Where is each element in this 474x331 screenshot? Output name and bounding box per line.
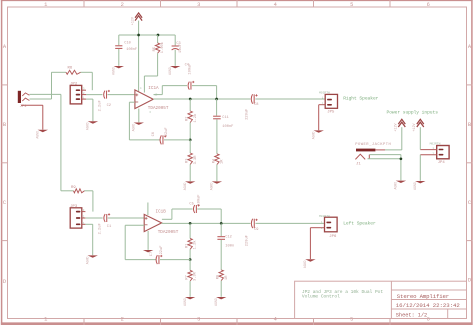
svg-text:R1: R1	[186, 243, 190, 248]
svg-text:22uF: 22uF	[165, 127, 169, 136]
audio jack JP1	[18, 91, 30, 109]
wire IC1B inverting input to C7	[125, 225, 156, 259]
ground AGND (JP4)	[413, 181, 425, 190]
capacitor C3 10uF	[172, 35, 183, 66]
svg-text:AGND: AGND	[413, 182, 417, 190]
svg-text:10uF: 10uF	[179, 44, 183, 53]
svg-text:Sheet: 1/2: Sheet: 1/2	[396, 313, 427, 319]
svg-text:1R: 1R	[225, 275, 229, 280]
svg-text:1.2k: 1.2k	[193, 240, 198, 250]
junction node output A / C11	[215, 98, 218, 101]
svg-text:1: 1	[44, 2, 47, 8]
svg-text:AGND: AGND	[214, 298, 218, 306]
svg-text:IC1B: IC1B	[156, 209, 167, 214]
svg-text:3.3R: 3.3R	[194, 271, 198, 281]
wire jack ring up to R6	[30, 72, 52, 99]
junction node feedback B	[189, 258, 192, 261]
resistor R1 1.2k (feedback B)	[186, 223, 198, 259]
ground AGND (C10)	[112, 66, 124, 75]
svg-text:JP4: JP4	[438, 161, 446, 165]
svg-text:100nF: 100nF	[126, 48, 137, 52]
capacitor C8 220uF (output A)	[245, 94, 325, 120]
svg-text:AGND: AGND	[183, 183, 187, 191]
ground AGND (JP2)	[86, 121, 98, 130]
svg-text:C: C	[3, 200, 6, 206]
label Right Speaker	[343, 96, 378, 102]
wire IC1A inverting input to C6	[129, 102, 160, 140]
svg-text:C6: C6	[152, 132, 156, 136]
svg-text:M02PTH: M02PTH	[319, 215, 330, 218]
wire JP4 pin1 to +12V	[419, 127, 421, 149]
wire JP3 pin2 to C1	[85, 217, 102, 219]
wire JP4 pin2 to ground	[419, 155, 421, 181]
frame column labels top	[44, 2, 430, 8]
svg-text:Power supply inputs: Power supply inputs	[387, 110, 439, 116]
ground AGND (JP6)	[303, 259, 315, 268]
junction node J1 ground	[400, 157, 403, 160]
svg-text:4: 4	[274, 316, 277, 322]
capacitor C7 22uF (feedback B)	[150, 246, 190, 265]
wire IC1A ground pin	[138, 109, 140, 123]
power symbol +12V (jack)	[395, 119, 406, 131]
capacitor C10 100nF	[115, 35, 137, 66]
wire IC1A bootstrap to C4	[154, 86, 188, 95]
svg-text:POWER_JACKPTH: POWER_JACKPTH	[355, 143, 391, 147]
svg-text:5: 5	[350, 2, 353, 8]
wire IC1B ground pin	[147, 231, 149, 250]
svg-text:2.2uF: 2.2uF	[99, 100, 103, 111]
frame column labels bottom	[44, 316, 430, 322]
svg-text:3: 3	[197, 2, 200, 8]
svg-text:4: 4	[274, 2, 277, 8]
wire J1 switch contact to ground	[369, 155, 401, 181]
resistor R6	[52, 66, 93, 90]
svg-text:6: 6	[427, 2, 430, 8]
svg-text:C10: C10	[124, 42, 130, 46]
svg-text:C8: C8	[254, 103, 258, 107]
capacitor C9 220uF (output B)	[246, 219, 325, 247]
frame row labels right	[468, 44, 472, 284]
svg-text:R5: R5	[153, 47, 157, 51]
resistor R5 1.00k	[144, 35, 165, 93]
svg-text:AGND: AGND	[210, 183, 214, 191]
wire jack sleeve to ground	[21, 105, 43, 129]
svg-text:C9: C9	[254, 228, 258, 232]
wire JP5 pin2 to ground	[318, 105, 320, 131]
ground AGND (R8)	[214, 297, 226, 306]
svg-text:2.2uF: 2.2uF	[99, 223, 103, 234]
svg-text:AGND: AGND	[86, 122, 90, 130]
op-amp IC1A TDA2005T (channel A)	[135, 86, 169, 114]
resistor R2 1.2k (feedback A)	[186, 99, 198, 140]
resistor R7 3.3R (feedback B lower)	[186, 260, 198, 297]
wire JP2 pin2 to C2	[86, 94, 102, 96]
svg-text:C: C	[468, 200, 471, 206]
svg-text:JP6: JP6	[329, 235, 337, 239]
svg-text:C7: C7	[150, 252, 154, 256]
resistor R8 1R (zobel B)	[217, 270, 229, 297]
svg-text:JP2: JP2	[70, 83, 78, 87]
svg-text:AGND: AGND	[168, 67, 172, 75]
svg-text:IC1A: IC1A	[148, 86, 159, 91]
resistor R9	[61, 186, 93, 212]
svg-text:+12V: +12V	[131, 16, 135, 25]
svg-text:AGND: AGND	[394, 182, 398, 190]
svg-text:R8: R8	[217, 275, 221, 279]
wire +12V to IC1A supply pin	[138, 21, 140, 92]
svg-text:C5: C5	[189, 202, 193, 206]
connector JP4 power	[420, 143, 449, 165]
label Left Speaker	[343, 220, 376, 226]
ground AGND (IC1A)	[132, 123, 144, 132]
svg-text:AGND: AGND	[86, 257, 90, 265]
resistor R3 3.3R (feedback A lower)	[186, 140, 198, 181]
svg-text:+12V: +12V	[395, 122, 399, 131]
ground AGND (IC1B)	[143, 250, 153, 252]
svg-text:3.3R: 3.3R	[194, 155, 198, 165]
svg-text:100nF: 100nF	[222, 125, 233, 129]
svg-text:J1: J1	[356, 162, 361, 166]
ground AGND (J1)	[394, 181, 406, 190]
svg-text:220uF: 220uF	[245, 109, 249, 120]
svg-text:R4: R4	[212, 158, 216, 163]
svg-text:C1: C1	[107, 225, 112, 229]
svg-text:M02PTH: M02PTH	[319, 91, 330, 94]
capacitor C6 22uF (feedback A)	[152, 127, 190, 144]
junction node rail-left	[137, 34, 140, 37]
ground AGND (JP3)	[86, 255, 98, 264]
capacitor C11 100nF (zobel A)	[213, 99, 233, 154]
wire J1 tip to +12V	[385, 127, 402, 150]
svg-text:1: 1	[44, 316, 47, 322]
svg-text:100uF: 100uF	[189, 64, 193, 75]
potentiometer connector JP3	[70, 205, 85, 228]
svg-text:Right Speaker: Right Speaker	[343, 96, 378, 102]
wire IC1B bootstrap to C5	[162, 209, 193, 219]
svg-text:1.00k: 1.00k	[160, 41, 165, 53]
svg-text:R7: R7	[186, 275, 190, 279]
frame row labels left	[3, 44, 7, 285]
note text: JP2 and JP3 are a 10k Dual Pot Volume Control	[302, 289, 383, 299]
svg-text:220uF: 220uF	[246, 235, 250, 246]
svg-text:2: 2	[121, 316, 124, 322]
ground AGND (R3)	[183, 181, 195, 190]
title block and note box	[295, 281, 467, 318]
resistor R4 1R (zobel A)	[212, 154, 224, 181]
wire J1 sleeve to ground	[368, 158, 401, 160]
svg-text:3: 3	[197, 316, 200, 322]
wire JP2 pin1 to ground	[86, 99, 93, 121]
svg-text:Left Speaker: Left Speaker	[343, 220, 376, 226]
wire jack tip to channel B (long vertical)	[30, 94, 61, 190]
svg-text:TDA2005T: TDA2005T	[158, 230, 179, 235]
svg-text:M02PTH: M02PTH	[430, 143, 441, 146]
svg-text:5: 5	[350, 316, 353, 322]
wire JP3 pin1 to ground	[85, 224, 92, 255]
junction node rail-right	[157, 34, 160, 37]
power symbol +12V (JP4)	[413, 119, 424, 131]
junction node output A / R2	[189, 98, 192, 101]
svg-text:1R: 1R	[221, 159, 225, 164]
capacitor C12 100nF (zobel B)	[217, 223, 234, 270]
svg-text:Stereo Amplifier: Stereo Amplifier	[397, 293, 449, 300]
svg-text:16/12/2014 22:23:42: 16/12/2014 22:23:42	[396, 302, 461, 309]
ground AGND (R4)	[210, 181, 222, 190]
svg-text:R2: R2	[186, 117, 190, 121]
svg-text:+12V: +12V	[413, 122, 417, 131]
title text Stereo Amplifier	[397, 293, 449, 300]
svg-text:D: D	[468, 278, 471, 284]
svg-text:AGND: AGND	[112, 67, 116, 75]
svg-text:JP5: JP5	[327, 110, 335, 114]
wire supply rail	[119, 34, 175, 36]
connector JP5 right speaker	[319, 91, 338, 114]
capacitor C2 2.2uF	[99, 90, 135, 112]
svg-text:100n: 100n	[225, 245, 234, 249]
svg-text:C12: C12	[225, 236, 231, 240]
ground AGND (jack)	[36, 130, 48, 139]
ground AGND (R7)	[183, 297, 195, 306]
wire IC1A output	[153, 98, 250, 100]
potentiometer connector JP2	[70, 83, 86, 104]
ground AGND (JP5)	[312, 130, 324, 139]
connector JP6 left speaker	[310, 215, 337, 239]
svg-text:1.2k: 1.2k	[193, 113, 198, 123]
svg-text:22uF: 22uF	[160, 246, 164, 255]
svg-text:100uF: 100uF	[197, 195, 201, 206]
svg-text:D: D	[3, 279, 6, 285]
svg-text:JP3: JP3	[70, 205, 78, 209]
svg-text:C2: C2	[107, 104, 111, 108]
junction node output B / R1	[189, 222, 192, 225]
svg-text:AGND: AGND	[36, 131, 40, 139]
svg-text:R9: R9	[71, 186, 76, 190]
label Power supply inputs	[387, 110, 439, 116]
svg-text:AGND: AGND	[312, 132, 316, 140]
op-amp IC1B TDA2005T (channel B)	[144, 203, 179, 236]
ground AGND (C3)	[168, 66, 180, 75]
capacitor C5 100uF (bootstrap B)	[189, 195, 221, 224]
svg-text:R3: R3	[186, 159, 190, 163]
junction node feedback A	[189, 139, 192, 142]
svg-text:Volume Control: Volume Control	[302, 293, 340, 299]
wire IC1B output	[162, 222, 251, 224]
svg-text:AGND: AGND	[132, 124, 136, 132]
svg-text:AGND: AGND	[303, 260, 307, 268]
sheet text	[396, 313, 427, 319]
date text	[396, 302, 461, 309]
svg-text:C11: C11	[222, 116, 228, 120]
junction node output B / C12	[220, 222, 223, 225]
power symbol +12V (top)	[131, 13, 142, 25]
svg-text:AGND: AGND	[183, 298, 187, 306]
svg-text:2: 2	[121, 2, 124, 8]
wire JP6 pin2 to ground	[309, 228, 311, 259]
svg-text:R6: R6	[68, 66, 73, 70]
capacitor C1 2.2uF	[99, 213, 145, 234]
svg-text:TDA2005T: TDA2005T	[148, 106, 169, 111]
power jack J1 POWER_JACKPTH	[355, 143, 391, 166]
capacitor C4 100uF (bootstrap A)	[185, 64, 217, 99]
